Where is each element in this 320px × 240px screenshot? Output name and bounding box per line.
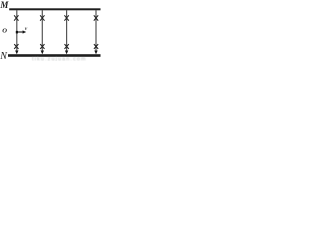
wire: top rail M: [9, 8, 100, 10]
lamp X1 upper on branch 1: [14, 15, 18, 20]
node O junction dot on branch 1: [16, 31, 18, 34]
lamp X3 lower on branch 3: [65, 44, 69, 49]
wire: vertical branch 3: [66, 10, 68, 52]
current arrowhead into rail N, branch 2: [41, 51, 44, 55]
wire: vertical branch 2: [41, 10, 43, 52]
label O: [2, 28, 7, 35]
lamp X4 lower on branch 4: [94, 44, 98, 49]
label M (top-left rail name): [0, 0, 9, 10]
label N (bottom-left rail name): [0, 51, 8, 62]
lamp X4 upper on branch 4: [94, 15, 98, 20]
current arrowhead into rail N, branch 1: [15, 51, 18, 55]
lamp X3 upper on branch 3: [64, 15, 68, 20]
label v: [25, 26, 28, 32]
current arrowhead into rail N, branch 3: [65, 51, 68, 55]
wire: vertical branch 4: [95, 10, 97, 52]
watermark text (faint): [32, 57, 87, 63]
velocity arrow v at node O: [18, 31, 24, 33]
background: [0, 0, 103, 61]
lamp X2 upper on branch 2: [40, 15, 44, 20]
lamp X2 lower on branch 2: [40, 44, 44, 49]
wire: bottom rail N: [8, 54, 101, 57]
svg-text:M: M: [0, 0, 9, 10]
svg-text:O: O: [2, 28, 7, 35]
current arrowhead into rail N, branch 4: [94, 51, 97, 55]
lamp X1 lower on branch 1: [14, 44, 18, 49]
svg-text:tiku.zujuan.com: tiku.zujuan.com: [32, 57, 87, 61]
wire: vertical branch 1: [16, 10, 18, 52]
